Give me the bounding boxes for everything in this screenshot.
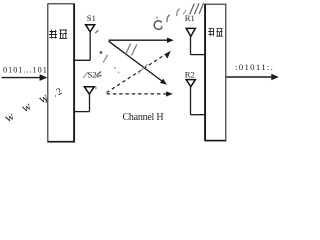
wire: S2 feed [74,111,89,113]
label: right block text (decoder glyphs) [208,28,223,36]
svg-text:S1: S1 [87,13,96,23]
watermark: faint specks center [114,67,119,73]
svg-text:0101...101: 0101...101 [3,65,48,74]
svg-text:S2: S2 [88,70,97,80]
antenna S2 [74,87,94,112]
watermark: triple slash top-right [190,3,204,15]
antenna R2 [186,80,205,115]
wire: input arrow [2,74,48,81]
wire: R1 feed [191,54,205,56]
block: receiver (decoder) [205,4,226,141]
label: left block text (encoder glyphs) [49,30,67,39]
watermark: specks left of S2 stem [95,76,98,90]
watermark: fragment near S2 [83,72,88,78]
watermark: www fragments bottom-left [2,86,64,125]
watermark: open paren 1 [167,15,170,23]
antenna R1 [186,28,205,54]
watermark: double slash mid [125,44,136,56]
watermark: open paren 2 [177,9,180,16]
watermark: c glyph [154,21,162,30]
watermark: small slash left of slashes [183,10,186,15]
svg-text:R2: R2 [185,69,195,79]
channel path h12 (dashed, S2 to R1) [107,51,171,93]
svg-text:Channel H: Channel H [123,112,164,123]
watermark: slash above arrows origin [95,30,98,33]
channel path h21 (solid, S1 to R2) [109,41,167,84]
watermark: dots near c glyph [156,17,163,28]
block: transmitter (encoder) [48,4,75,142]
svg-text::01011:.: :01011:. [235,62,274,72]
antenna S1 [74,25,95,61]
channel path h22 (dashed, S2 to R2) [107,91,173,96]
wire: output arrow [226,74,278,80]
watermark: speck on left block edge [46,100,48,103]
channel path h11 (solid, S1 to R1) [109,38,174,43]
wire: S1 feed [74,59,90,61]
watermark: stray slash below center [138,64,148,74]
watermark: dark dot and slash mid-left [100,51,108,62]
watermark: fragment right of S2 label [97,72,102,78]
wire: R2 feed [191,114,205,116]
